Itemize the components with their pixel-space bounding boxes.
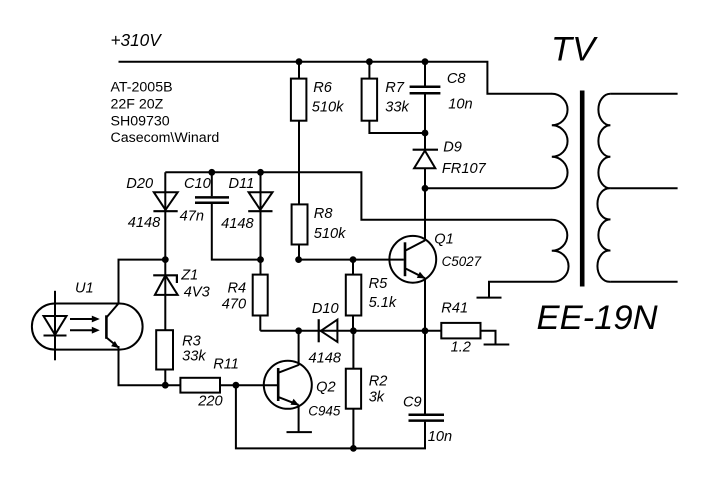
- svg-text:AT-2005B: AT-2005B: [111, 80, 173, 96]
- svg-text:EE-19N: EE-19N: [537, 299, 658, 337]
- svg-text:R5: R5: [369, 276, 389, 292]
- svg-text:D10: D10: [312, 301, 339, 317]
- svg-text:SH09730: SH09730: [111, 113, 170, 129]
- svg-text:3k: 3k: [369, 389, 385, 405]
- svg-text:220: 220: [197, 394, 222, 410]
- svg-text:D20: D20: [126, 176, 153, 192]
- svg-text:U1: U1: [75, 281, 94, 297]
- svg-text:10n: 10n: [448, 96, 472, 112]
- svg-text:Casecom\Winard: Casecom\Winard: [111, 130, 220, 146]
- svg-text:C945: C945: [308, 403, 341, 418]
- svg-text:R4: R4: [228, 280, 247, 296]
- svg-text:R8: R8: [314, 206, 334, 222]
- svg-text:Z1: Z1: [180, 267, 198, 283]
- svg-text:4148: 4148: [309, 350, 342, 366]
- svg-text:22F 20Z: 22F 20Z: [111, 97, 164, 113]
- svg-text:R41: R41: [441, 301, 468, 317]
- svg-text:D9: D9: [443, 140, 462, 156]
- svg-text:47n: 47n: [180, 209, 204, 225]
- svg-text:4148: 4148: [128, 215, 161, 231]
- svg-text:470: 470: [222, 297, 246, 313]
- svg-text:Q1: Q1: [434, 231, 453, 247]
- svg-text:C10: C10: [184, 176, 211, 192]
- svg-text:D11: D11: [229, 176, 255, 192]
- svg-text:33k: 33k: [385, 99, 409, 115]
- svg-text:33k: 33k: [182, 348, 206, 364]
- svg-text:C8: C8: [447, 71, 467, 87]
- svg-text:R3: R3: [182, 334, 201, 350]
- svg-text:10n: 10n: [428, 429, 452, 445]
- svg-text:510k: 510k: [314, 226, 346, 242]
- svg-text:+310V: +310V: [111, 30, 163, 50]
- svg-text:510k: 510k: [312, 99, 344, 115]
- svg-text:Q2: Q2: [316, 379, 335, 395]
- svg-text:5.1k: 5.1k: [369, 295, 397, 311]
- svg-text:4148: 4148: [221, 216, 254, 232]
- svg-text:R6: R6: [313, 80, 333, 96]
- svg-text:R2: R2: [369, 374, 388, 390]
- svg-text:FR107: FR107: [442, 161, 487, 177]
- svg-text:TV: TV: [551, 31, 598, 69]
- svg-text:1.2: 1.2: [451, 340, 471, 356]
- svg-text:R11: R11: [213, 356, 239, 372]
- svg-text:C5027: C5027: [442, 254, 482, 269]
- svg-text:R7: R7: [385, 80, 405, 96]
- svg-text:C9: C9: [403, 395, 422, 411]
- svg-text:4V3: 4V3: [184, 284, 210, 300]
